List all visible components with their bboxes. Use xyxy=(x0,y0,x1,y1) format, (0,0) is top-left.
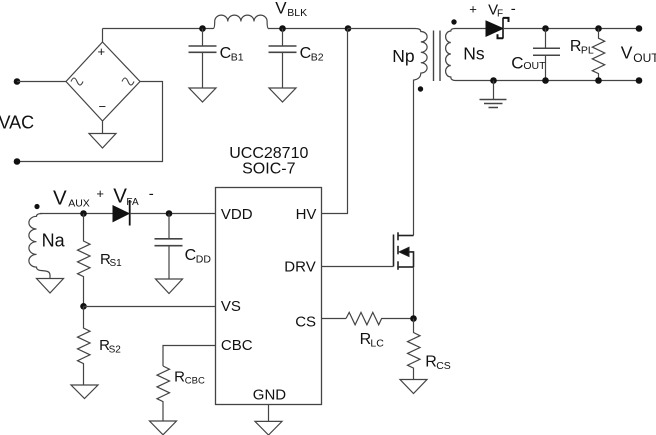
transformer core xyxy=(434,31,441,82)
wire HV to top rail xyxy=(322,29,348,214)
resistor R_CS xyxy=(408,319,421,380)
node Ns bottom junction xyxy=(490,77,497,84)
label R_CS xyxy=(425,354,451,372)
wire CS xyxy=(322,318,347,320)
svg-text:VDD: VDD xyxy=(221,206,253,223)
svg-text:Ns: Ns xyxy=(463,44,485,64)
svg-text:V: V xyxy=(621,43,633,63)
svg-text:LC: LC xyxy=(370,338,384,350)
label + V_F - xyxy=(469,0,516,19)
node C_OUT bottom xyxy=(542,77,549,84)
ground (C_B1) xyxy=(189,88,216,102)
transistor Q1 MOSFET xyxy=(394,232,414,269)
label R_S1 xyxy=(100,251,122,269)
wire xyxy=(17,81,66,83)
inductor L1 xyxy=(210,15,269,28)
resistor R_PL xyxy=(592,29,604,81)
ground (R_S2) xyxy=(71,385,98,399)
label C_B2 xyxy=(300,45,324,63)
resistor R_CBC xyxy=(157,366,170,421)
svg-text:C: C xyxy=(511,53,523,72)
wire GND pin xyxy=(268,405,270,422)
svg-text:Np: Np xyxy=(392,46,414,66)
svg-text:SOIC-7: SOIC-7 xyxy=(242,161,295,178)
wire MOSFET source down xyxy=(413,267,415,319)
svg-text:V: V xyxy=(53,186,67,209)
wire output top rail xyxy=(503,28,639,30)
IC U1 UCC28710 box xyxy=(216,188,322,405)
node VAC bottom terminal xyxy=(14,158,21,165)
svg-text:FA: FA xyxy=(126,197,139,208)
ground (R_CS) xyxy=(400,380,427,394)
label C_OUT xyxy=(511,53,546,72)
ground (R_CBC) xyxy=(150,421,177,435)
svg-text:CS: CS xyxy=(436,360,451,372)
winding Na xyxy=(29,214,50,279)
svg-text:C: C xyxy=(185,247,197,264)
svg-text:VS: VS xyxy=(221,298,241,315)
ground (Na) xyxy=(37,279,64,294)
svg-text:V: V xyxy=(275,0,287,17)
node V_OUT bottom terminal xyxy=(636,77,643,84)
svg-text:OUT: OUT xyxy=(633,51,656,65)
svg-text:OUT: OUT xyxy=(523,60,546,72)
wire DRV to gate xyxy=(322,266,394,268)
svg-text:UCC28710: UCC28710 xyxy=(229,145,308,162)
svg-text:+: + xyxy=(469,2,477,17)
transformer primary Np xyxy=(348,29,427,81)
node C_B2 junction xyxy=(279,25,286,32)
transformer secondary Ns xyxy=(446,29,486,81)
svg-text:BLK: BLK xyxy=(287,7,307,19)
svg-text:GND: GND xyxy=(253,387,286,404)
node VS junction xyxy=(80,303,87,310)
svg-text:PL: PL xyxy=(581,45,594,57)
wire xyxy=(268,28,348,30)
wire output bottom rail xyxy=(457,80,639,82)
capacitor C_B1 xyxy=(189,29,217,89)
node R_PL top xyxy=(595,25,602,32)
svg-text:AUX: AUX xyxy=(68,197,90,209)
svg-text:CS: CS xyxy=(295,314,316,331)
svg-text:+: + xyxy=(98,44,106,59)
svg-text:DD: DD xyxy=(196,254,212,266)
ground (C_DD) xyxy=(156,279,183,294)
svg-text:F: F xyxy=(497,9,503,20)
label V_OUT xyxy=(621,43,656,66)
node C_B1 junction xyxy=(199,25,206,32)
svg-text:R: R xyxy=(425,354,437,371)
capacitor C_OUT xyxy=(533,29,560,81)
label V_BLK xyxy=(275,0,307,19)
svg-text:R: R xyxy=(570,38,582,55)
wire bridge bottom xyxy=(102,121,104,134)
label V_AUX xyxy=(53,186,90,209)
node CS junction xyxy=(410,315,417,322)
wire VS xyxy=(84,306,216,308)
resistor R_S1 xyxy=(78,214,91,307)
capacitor C_B2 xyxy=(269,29,297,89)
svg-text:B1: B1 xyxy=(231,52,244,64)
wire top rail xyxy=(103,28,211,30)
svg-text:HV: HV xyxy=(296,206,317,223)
node R_S1 top junction xyxy=(80,210,87,217)
label + V_FA - xyxy=(96,185,153,208)
svg-text:C: C xyxy=(300,45,312,62)
bridge rectifier D1 xyxy=(66,42,140,121)
node C_OUT top xyxy=(542,25,549,32)
svg-text:VAC: VAC xyxy=(0,112,34,132)
node Ns polarity dot xyxy=(451,19,456,24)
node Np polarity dot xyxy=(418,86,423,91)
svg-text:-: - xyxy=(149,185,154,202)
svg-text:Na: Na xyxy=(42,230,66,250)
svg-text:V: V xyxy=(113,185,127,208)
node V_OUT top terminal xyxy=(636,25,643,32)
wire bridge right to bottom rail xyxy=(17,82,163,162)
node HV/Np junction xyxy=(345,25,352,32)
svg-text:+: + xyxy=(96,186,104,201)
svg-text:CBC: CBC xyxy=(221,337,253,354)
wire Np bottom to MOSFET drain xyxy=(413,81,415,236)
wire xyxy=(102,29,104,43)
svg-text:DRV: DRV xyxy=(284,259,315,276)
svg-text:S1: S1 xyxy=(110,258,123,269)
node R_PL bottom xyxy=(595,77,602,84)
wire xyxy=(130,213,216,215)
label C_DD xyxy=(185,247,212,266)
wire aux rail xyxy=(40,213,113,215)
svg-text:R: R xyxy=(174,369,185,386)
resistor R_S2 xyxy=(78,307,91,386)
label R_PL xyxy=(570,38,594,57)
label R_S2 xyxy=(99,337,121,355)
svg-text:-: - xyxy=(511,0,516,17)
label R_LC xyxy=(360,331,385,349)
label C_B1 xyxy=(220,45,244,63)
label R_CBC xyxy=(174,369,205,387)
earth ground (output) xyxy=(480,81,507,108)
svg-text:−: − xyxy=(99,99,107,114)
resistor R_LC xyxy=(346,312,414,324)
ground (GND pin) xyxy=(255,421,282,435)
svg-text:S2: S2 xyxy=(109,344,122,355)
diode V_FA xyxy=(113,200,130,226)
node VAC top terminal xyxy=(14,78,21,85)
node Na polarity dot xyxy=(34,204,39,209)
wire CBC xyxy=(163,346,216,367)
ground (C_B2) xyxy=(269,88,296,102)
node C_DD junction xyxy=(166,210,173,217)
svg-text:C: C xyxy=(220,45,232,62)
diode V_F (output rectifier) xyxy=(486,18,509,39)
ground (bridge) xyxy=(89,134,116,149)
svg-text:B2: B2 xyxy=(311,52,324,64)
capacitor C_DD xyxy=(155,214,183,280)
svg-text:CBC: CBC xyxy=(185,376,205,387)
